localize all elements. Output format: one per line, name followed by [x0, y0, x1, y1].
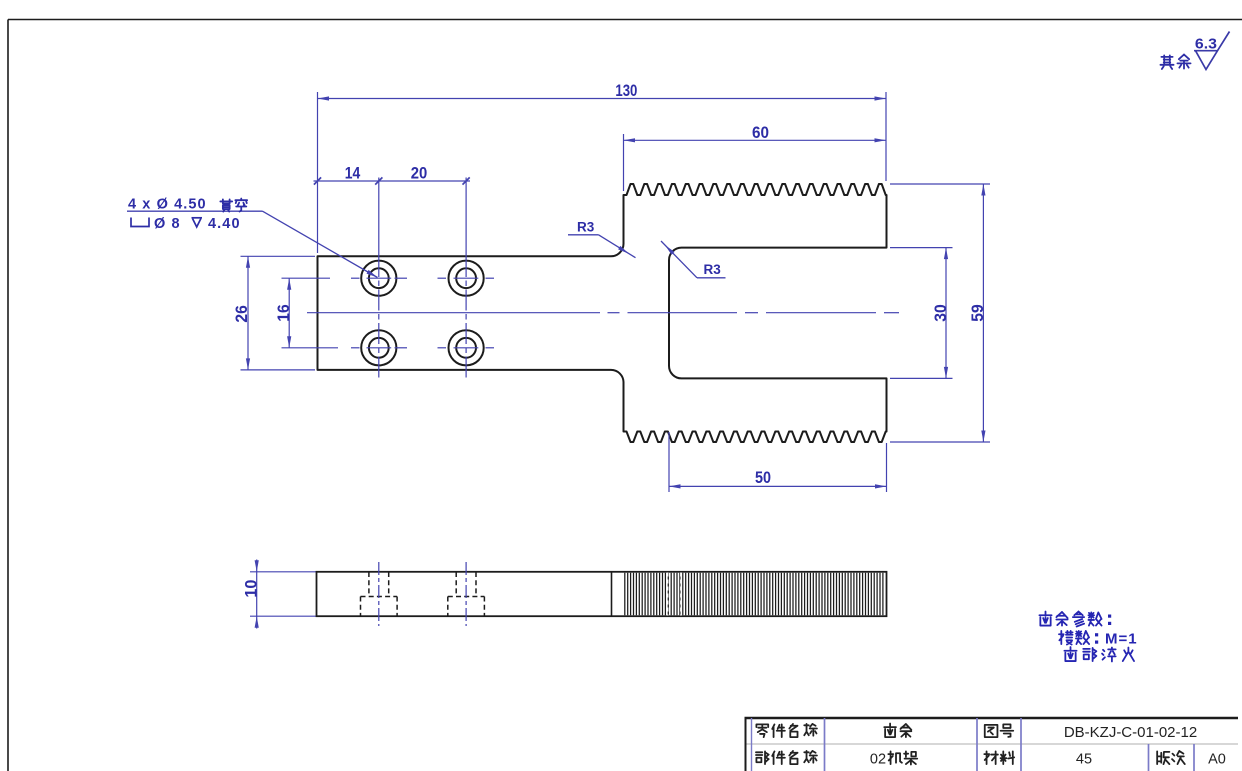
svg-text:Ø 8: Ø 8 — [154, 216, 181, 232]
svg-text:R3: R3 — [577, 220, 595, 235]
svg-text:130: 130 — [615, 81, 637, 100]
svg-text:14: 14 — [345, 164, 361, 183]
svg-text:10: 10 — [241, 580, 260, 598]
svg-text:50: 50 — [755, 468, 771, 487]
svg-text:16: 16 — [274, 304, 293, 322]
svg-text:26: 26 — [232, 305, 251, 323]
svg-text:DB-KZJ-C-01-02-12: DB-KZJ-C-01-02-12 — [1064, 724, 1197, 741]
svg-text:M=1: M=1 — [1105, 631, 1138, 648]
svg-text:20: 20 — [411, 164, 428, 183]
svg-text:60: 60 — [752, 123, 769, 142]
svg-text:4.40: 4.40 — [208, 216, 241, 232]
svg-text:R3: R3 — [704, 262, 722, 277]
svg-text:4 x Ø 4.50: 4 x Ø 4.50 — [128, 197, 207, 213]
svg-text:6.3: 6.3 — [1195, 35, 1217, 52]
svg-text:30: 30 — [931, 304, 950, 322]
svg-text:A0: A0 — [1208, 752, 1226, 768]
svg-text:45: 45 — [1076, 752, 1092, 768]
svg-text:02: 02 — [870, 752, 886, 768]
svg-text:59: 59 — [968, 304, 987, 322]
